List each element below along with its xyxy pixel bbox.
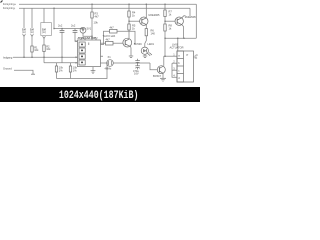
wire Q1 emitter to rail (145, 4, 147, 18)
svg-text:-C: -C (195, 56, 198, 60)
svg-text:16V: 16V (134, 71, 139, 75)
ground LED tail (143, 56, 147, 57)
wire Q3 collector (163, 56, 165, 66)
svg-text:LED1: LED1 (148, 42, 155, 46)
wire xtal right run (113, 62, 150, 64)
resistor R9 (55, 66, 57, 72)
wire to Q3 base (150, 63, 157, 70)
pin arrows U1 left (76, 40, 78, 63)
wire trimmer P3 drop (43, 8, 45, 22)
capacitor C1 (60, 30, 65, 32)
ground Q4 emitter (129, 56, 133, 57)
junction node J5 (input/x24) (23, 57, 24, 58)
crystal X1 (107, 60, 114, 67)
resistor R7 (164, 10, 166, 17)
resistor R8 (164, 24, 166, 31)
wire trimmer P2 drop (31, 8, 33, 28)
svg-text:ACTUATOR: ACTUATOR (170, 46, 184, 50)
svg-text:Indgang: Indgang (3, 55, 13, 59)
wire CN2 pin wires vertical (172, 63, 177, 77)
svg-text:2u2: 2u2 (58, 23, 63, 27)
junction node J8 (Q2 base tap) (164, 21, 165, 22)
wire C2 drop (74, 29, 76, 31)
wire node38 (165, 37, 196, 39)
svg-text:4k7: 4k7 (110, 25, 115, 29)
wire R3 chain (91, 4, 93, 12)
svg-text:5V1: 5V1 (87, 27, 92, 31)
resistor R3 (91, 12, 93, 18)
resistor R1 (31, 46, 33, 52)
svg-text:10k: 10k (46, 47, 51, 51)
resistor R5 (128, 24, 130, 30)
connector CN2 (177, 51, 194, 82)
wire block feed (177, 38, 179, 51)
junction node J12 (node38/Q2 collector) (183, 38, 184, 39)
wire R13 to node (117, 31, 135, 44)
svg-text:10k: 10k (94, 21, 99, 25)
svg-text:MJE2905: MJE2905 (149, 13, 161, 17)
wire base Q2 (165, 20, 175, 22)
wire Q4 collector chain (128, 37, 130, 39)
junction node J13 (bottom rail/wire63) (106, 62, 107, 63)
svg-text:140: 140 (151, 31, 156, 35)
wire Q1 collector to R6 (145, 25, 147, 29)
svg-text:Forsyning-: Forsyning- (3, 6, 15, 10)
transistor Q2 MJE2905 (175, 17, 183, 25)
transistor Q4 BC546 (123, 38, 132, 47)
junction node J14 (C5/wire63) (137, 62, 138, 63)
wire xtal left (101, 62, 107, 64)
wire node38 to regulator (164, 38, 166, 56)
rail V+ 2nd (19, 7, 190, 9)
junction node J3 (input/x44) (43, 57, 44, 58)
svg-text:4k7: 4k7 (106, 38, 111, 42)
footer bar (0, 87, 200, 102)
corner mark (1, 1, 3, 3)
svg-text:Ground: Ground (3, 67, 12, 71)
resistor R4 (128, 11, 130, 17)
junction node J2 (capC1/wireC) (61, 28, 62, 29)
svg-text:4MHz: 4MHz (105, 66, 112, 70)
svg-text:1024x440(187KiB): 1024x440(187KiB) (59, 89, 139, 101)
svg-text:BC547: BC547 (153, 74, 161, 78)
svg-text:4k7: 4k7 (95, 14, 100, 18)
wire line B (44, 62, 78, 64)
ground Q3 emitter (160, 78, 166, 81)
junction node J17 (rail1/x146) (146, 4, 147, 5)
junction node J9 (node38/x165) (164, 38, 165, 39)
svg-text:BC546: BC546 (134, 42, 142, 46)
wire rail2 drop (189, 8, 191, 16)
wire R6 to LED (145, 36, 147, 47)
op-amp U1 (main IC block) (78, 39, 104, 67)
wire Q3 emitter (162, 73, 164, 78)
IC cell glyphs (81, 44, 83, 64)
junction node J6 (input/x32) (31, 57, 32, 58)
box around trimmer P3 (41, 23, 52, 36)
wire R13 left stub (101, 31, 110, 44)
junction node J15 (rail1/x92) (91, 4, 92, 5)
wire cap row (54, 28, 83, 30)
pin stub right NC (101, 55, 104, 57)
ground IC (91, 71, 96, 74)
wire CN2 pin2 (172, 62, 177, 64)
junction node J18 (rail1/x129) (128, 4, 129, 5)
junction node J19 (rail1/x165) (164, 4, 165, 5)
svg-text:(m): (m) (42, 30, 46, 34)
wire ground stub (14, 70, 33, 74)
junction node J4 (input/x62) (61, 57, 62, 58)
diode D1 (80, 27, 86, 33)
rail V+ top (19, 3, 196, 5)
junction node J11 (node38/CN2 feed) (177, 38, 178, 39)
wire trimmer P1 drop (23, 8, 25, 28)
transistor Q1 MJE2905 (140, 17, 148, 25)
svg-text:X1: X1 (108, 55, 112, 59)
wire CN2 pin3 (172, 69, 177, 71)
svg-text:(m): (m) (30, 30, 34, 34)
wire base Q1 (129, 20, 140, 22)
junction node J1 (wireC/x54) (53, 28, 54, 29)
capacitor C2 (73, 30, 78, 32)
junction node J7 (Q1 base tap) (128, 21, 129, 22)
svg-text:P: P (187, 53, 189, 57)
svg-text:(m): (m) (22, 30, 26, 34)
wire R10 hang (70, 63, 72, 66)
wire to CN2 pin1 (164, 55, 177, 57)
capacitor C5 pair (polarized) (135, 59, 140, 70)
svg-text:MJE2905: MJE2905 (185, 15, 197, 19)
LED D2 (141, 47, 152, 56)
junction node J20 (rail2/x54) (53, 8, 54, 9)
wire cap row feed (53, 8, 55, 28)
wire R9 hang (56, 63, 58, 66)
transistor Q3 BC547 (157, 66, 165, 74)
resistor R13 (110, 29, 118, 33)
wire Q4 emitter gnd (130, 46, 133, 56)
wire bottom rail (57, 63, 108, 79)
resistor R10 (69, 66, 71, 72)
resistor R6 (145, 29, 147, 36)
svg-text:10k: 10k (34, 48, 39, 52)
wire Q2 emitter up (182, 16, 186, 18)
wire right edge drop from rail1 (195, 4, 197, 38)
pin stubs top (80, 39, 82, 40)
wire R8 chain (164, 4, 166, 10)
wire IC gnd pin (92, 67, 94, 71)
resistor R14 (106, 41, 114, 45)
junction node J16 (diode/x92) (91, 36, 92, 37)
resistor R2 (43, 45, 45, 52)
svg-text:ATMEGA8-16PU: ATMEGA8-16PU (78, 36, 98, 40)
svg-text:Forsyning+: Forsyning+ (3, 2, 16, 6)
wire Q2 collector down (182, 25, 184, 39)
wire R4 chain (128, 4, 130, 11)
svg-text:2u2: 2u2 (71, 23, 76, 27)
junction node J10 (pin1 wire/x165) (164, 56, 165, 57)
wire C1 drop (61, 29, 63, 31)
wire R14 row (101, 42, 106, 44)
wire LED tail (144, 55, 146, 56)
diode D1 drop (82, 27, 84, 28)
wire CN2 right pin (194, 56, 197, 58)
svg-text:TL072 with: TL072 with (103, 34, 116, 38)
wire input line (13, 56, 78, 58)
